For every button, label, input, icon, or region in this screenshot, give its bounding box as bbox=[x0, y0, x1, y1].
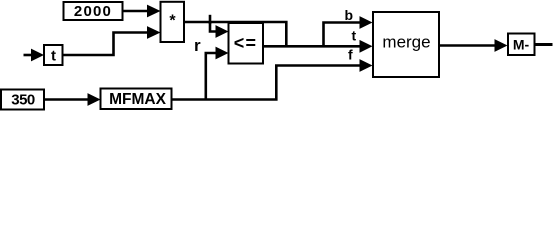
input stub arrow bbox=[24, 54, 34, 57]
wire MFMAX branch up to relational in2 bbox=[206, 53, 218, 100]
wire 2000 to product bbox=[123, 10, 151, 13]
svg-text:M-: M- bbox=[513, 37, 530, 53]
arrowhead relational in2 bbox=[216, 47, 229, 60]
arrowhead into t block bbox=[31, 49, 44, 62]
svg-text:t: t bbox=[352, 28, 357, 44]
relational operator block <= bbox=[229, 23, 264, 64]
wire MFMAX out to merge f bbox=[172, 66, 363, 100]
svg-text:<=: <= bbox=[234, 33, 258, 53]
arrowhead product in2 bbox=[147, 26, 161, 39]
arrowhead relational in1 bbox=[216, 25, 229, 38]
arrowhead M- in bbox=[495, 39, 508, 52]
svg-text:350: 350 bbox=[11, 92, 35, 109]
merge block bbox=[373, 12, 439, 77]
svg-text:MFMAX: MFMAX bbox=[109, 91, 166, 108]
wire merge out bbox=[439, 44, 497, 47]
svg-text:2000: 2000 bbox=[74, 3, 112, 20]
branch wire up to merge b bbox=[324, 23, 363, 47]
wire t to product in2 bbox=[63, 33, 151, 56]
arrowhead MFMAX in bbox=[88, 93, 101, 106]
goto block M- bbox=[508, 34, 535, 56]
svg-text:f: f bbox=[348, 47, 353, 63]
svg-text:*: * bbox=[169, 13, 176, 30]
svg-text:merge: merge bbox=[382, 33, 430, 52]
svg-text:b: b bbox=[345, 7, 354, 23]
clock block t bbox=[44, 45, 63, 65]
junction tick at node bbox=[209, 15, 212, 24]
wire product out across top bbox=[184, 22, 286, 46]
arrowhead merge t bbox=[360, 40, 373, 53]
arrowhead product in1 bbox=[147, 5, 161, 18]
branch wire to relational in1 bbox=[210, 22, 218, 32]
wire relational out to merge t bbox=[263, 45, 362, 48]
arrowhead merge f bbox=[360, 59, 373, 72]
output wire from M- bbox=[535, 43, 553, 46]
arrowhead merge b bbox=[360, 16, 373, 29]
wire 350 to MFMAX bbox=[44, 98, 89, 101]
svg-text:r: r bbox=[194, 36, 201, 55]
constant block 2000 bbox=[64, 2, 123, 20]
product block U* bbox=[161, 2, 185, 42]
gain block MFMAX bbox=[101, 89, 172, 110]
constant block 350 bbox=[1, 90, 44, 110]
svg-text:t: t bbox=[51, 48, 56, 65]
